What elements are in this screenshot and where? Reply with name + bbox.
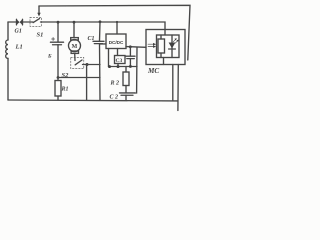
motor M1 (circle with brushes) xyxy=(69,38,81,61)
wire: DC/DC input pin from center column xyxy=(100,43,106,45)
resistor R2 xyxy=(123,67,129,93)
node: battery bottom / R1 junction xyxy=(57,76,60,79)
inductor L1 xyxy=(6,40,8,58)
wire: battery bottom to center column xyxy=(58,77,100,79)
element G1 (bowtie symbol) xyxy=(17,19,23,25)
wire: S2 junction down to bottom rail xyxy=(86,65,88,101)
svg-text:L1: L1 xyxy=(15,44,23,51)
outer box MC xyxy=(146,30,185,65)
wire: top control line from arrow corner to right edge xyxy=(39,5,190,60)
wire: outer box second bottom pin with overshoot tail xyxy=(177,65,179,111)
battery B (plus sign, long/short plates) xyxy=(51,22,64,78)
wire: C3 top pin xyxy=(117,49,119,56)
node: DC/DC top pin junction xyxy=(116,21,118,23)
wire: bottom rail xyxy=(8,99,178,102)
wire: G1 left lead xyxy=(8,21,17,23)
wire: main top rail y=22 xyxy=(41,22,166,30)
LED VD1 xyxy=(169,35,179,58)
svg-text:C3: C3 xyxy=(116,58,123,64)
wire: right bypass from output wire down to C2 xyxy=(135,47,138,93)
svg-text:S1: S1 xyxy=(37,32,44,39)
wire: DC/DC bottom-left pin down to W1 xyxy=(108,49,110,67)
node: W1 C3 junction xyxy=(117,65,120,68)
node: S2 output junction xyxy=(86,63,89,66)
svg-text:R 2: R 2 xyxy=(110,81,120,87)
wire: inner box bottom pin xyxy=(163,58,165,65)
wire: left edge below L1 to bottom rail xyxy=(7,58,9,100)
wire: arrow stem pointing down at S1 xyxy=(38,6,40,13)
node: output cap junction xyxy=(129,45,132,48)
inner box optocoupler xyxy=(157,35,180,58)
wire: outer box bottom pin to bottom rail xyxy=(172,65,174,101)
arrowhead at S1 xyxy=(37,13,40,17)
wire: G1 to S1 xyxy=(23,21,34,23)
node: battery top junction xyxy=(57,21,60,24)
DC/DC converter U1 box xyxy=(106,34,126,49)
switch S2 (dashed box with arm) xyxy=(71,57,87,68)
node: C1 top junction xyxy=(99,20,102,23)
wire: into module top xyxy=(164,30,166,36)
capacitor C1 (on center column) xyxy=(93,22,104,100)
wire: left edge down from G1 wire xyxy=(7,22,9,40)
wire: DC/DC top pin xyxy=(116,22,118,34)
node: motor top junction xyxy=(73,21,76,24)
motor M1 leads xyxy=(73,22,75,38)
light arrows into photoresistor xyxy=(148,43,156,48)
svg-text:S2: S2 xyxy=(62,72,70,79)
node: W1 left junction xyxy=(108,65,111,68)
photoresistor R xyxy=(158,35,165,58)
svg-text:C 2: C 2 xyxy=(110,95,119,101)
switch S1 (dashed box with arm) xyxy=(30,17,42,26)
svg-text:R1: R1 xyxy=(61,87,69,93)
svg-text:DC/DC: DC/DC xyxy=(109,40,124,45)
resistor R1 xyxy=(55,78,61,101)
svg-text:Б: Б xyxy=(47,54,52,60)
wire: S2 junction right to center column xyxy=(87,64,100,66)
wire: W1 horizontal xyxy=(109,66,138,68)
wire: C3 bottom pin xyxy=(117,64,119,67)
capacitor C2 xyxy=(120,93,135,100)
svg-text:M: M xyxy=(72,44,78,50)
component C3 box xyxy=(115,56,126,64)
svg-text:МС: МС xyxy=(147,67,159,75)
svg-text:G1: G1 xyxy=(15,29,22,35)
node: W1 cap junction xyxy=(129,65,132,68)
svg-text:C1: C1 xyxy=(88,36,95,42)
capacitor C4 (output cap) xyxy=(126,47,135,67)
wire: DC/DC right output wire to module xyxy=(126,46,146,49)
